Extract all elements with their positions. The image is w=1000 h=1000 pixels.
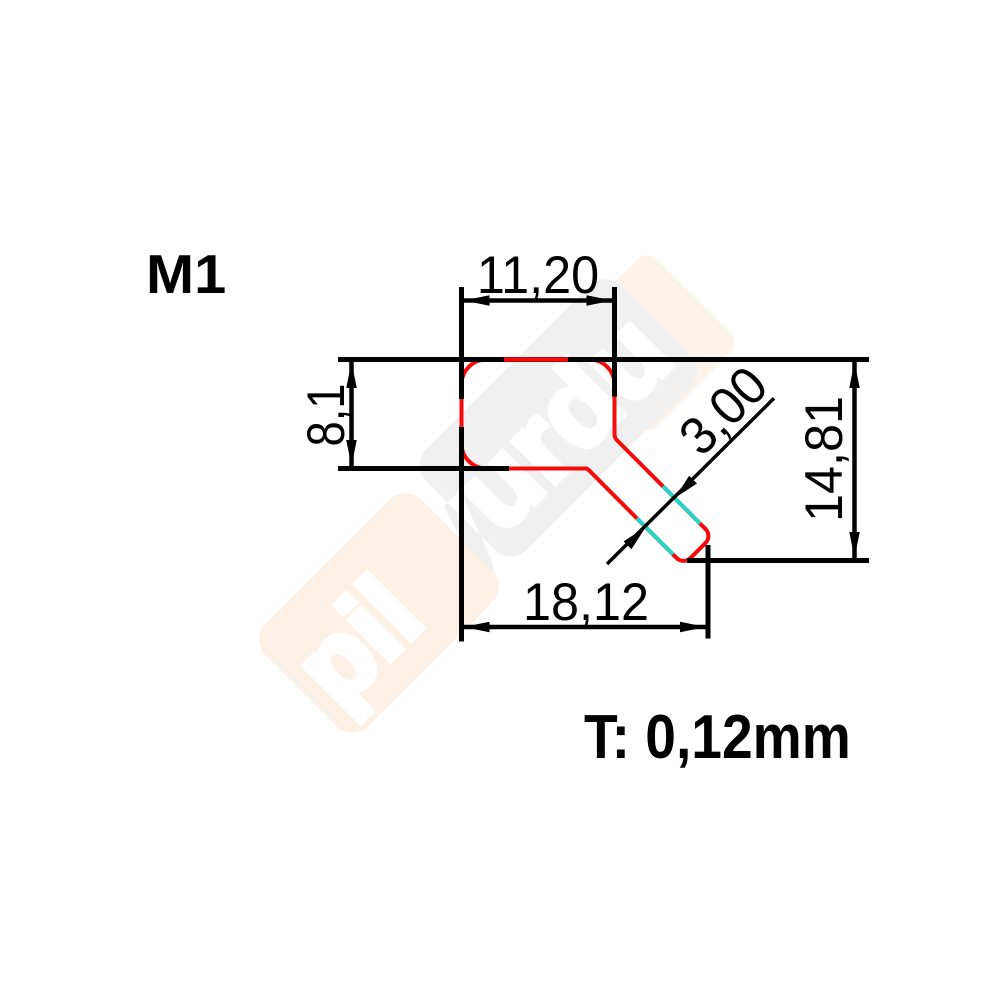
svg-text:M1: M1 — [146, 243, 226, 304]
watermark cream diamond — [554, 250, 741, 437]
leader arrowhead at upper arm edge — [675, 476, 697, 498]
leader line 3,00 through the arm — [607, 398, 774, 564]
svg-text:11,20: 11,20 — [477, 245, 599, 304]
top long horizontal line — [338, 357, 869, 362]
svg-text:14,81: 14,81 — [794, 396, 853, 522]
svg-text:T: 0,12mm: T: 0,12mm — [584, 703, 851, 772]
svg-text:8,1: 8,1 — [297, 384, 356, 447]
leader arrowhead at lower arm edge — [624, 527, 646, 549]
second horizontal line (pill bottom) — [338, 466, 509, 471]
left vertical extension line lower part — [459, 427, 464, 642]
watermark orange box with white pil — [250, 484, 508, 742]
cyan segment upper arm edge — [663, 486, 700, 523]
dimension line 8,1 — [349, 362, 354, 466]
dimension line 11,20 — [463, 298, 613, 303]
bottom-right horizontal line (tip bottom) — [687, 558, 869, 563]
right extension line of 11,20 — [612, 287, 617, 397]
profile outline (red) — [461, 360, 708, 561]
dimension line 14,81 — [852, 362, 857, 558]
left vertical extension line upper part — [459, 287, 464, 399]
red overlay segment on top edge — [504, 357, 568, 362]
right extension line of 18,12 — [706, 545, 711, 639]
dimension line 18,12 — [463, 625, 706, 630]
watermark gray band with white yurdu knockout — [376, 270, 706, 600]
cyan segment lower arm edge — [637, 518, 673, 554]
svg-text:18,12: 18,12 — [523, 572, 649, 631]
